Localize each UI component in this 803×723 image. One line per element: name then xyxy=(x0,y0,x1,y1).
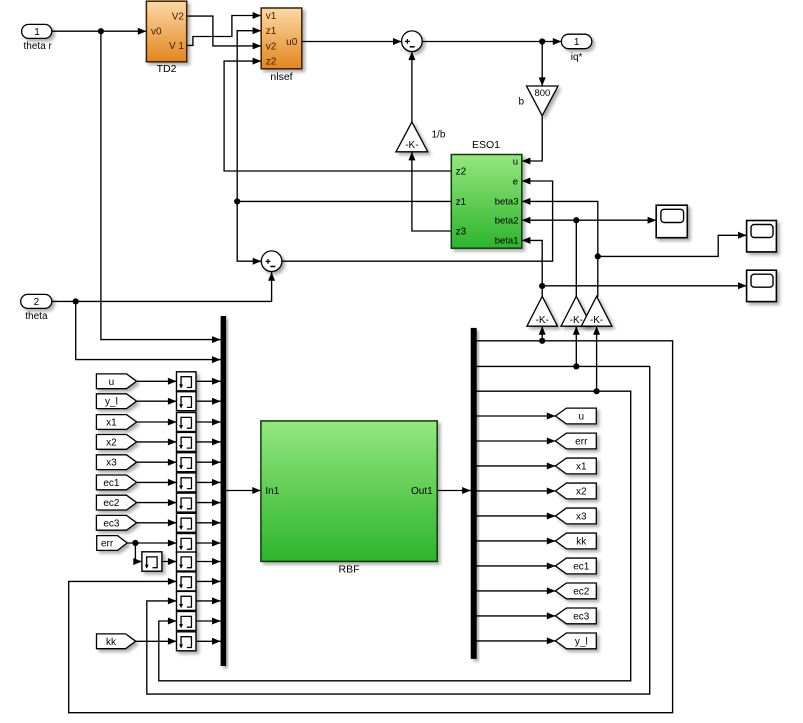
svg-text:v2: v2 xyxy=(266,41,277,52)
svg-text:u: u xyxy=(579,412,585,423)
wire theta r branch to Mux input 1 xyxy=(101,31,221,339)
wire Demux to Goto tag x3 xyxy=(477,515,556,517)
svg-text:x1: x1 xyxy=(106,418,117,429)
block ESO1 xyxy=(451,155,522,249)
goto tag x1 xyxy=(555,458,596,474)
svg-text:x1: x1 xyxy=(576,461,587,472)
goto tag ec3 xyxy=(555,608,596,624)
svg-text:err: err xyxy=(101,539,114,550)
junction theta branch xyxy=(73,298,79,304)
svg-text:v1: v1 xyxy=(266,11,277,22)
svg-text:e: e xyxy=(513,176,518,187)
svg-text:Out1: Out1 xyxy=(411,486,433,497)
svg-text:kk: kk xyxy=(576,536,587,547)
junction Demux out3 to gain -K-3 xyxy=(594,388,600,394)
from tag kk xyxy=(97,634,136,649)
svg-text:800: 800 xyxy=(534,88,550,99)
scope Scope1 xyxy=(656,205,687,238)
wire From tag err to delay xyxy=(127,542,176,544)
svg-text:z1: z1 xyxy=(456,197,467,208)
from tag ec1 xyxy=(96,475,136,490)
svg-text:u: u xyxy=(513,156,518,167)
svg-text:kk: kk xyxy=(106,637,117,648)
gain -K-1 xyxy=(527,296,558,326)
wire delay 10 to Mux xyxy=(196,561,221,563)
from tag err xyxy=(97,536,128,551)
svg-text:beta2: beta2 xyxy=(495,216,519,227)
svg-text:2: 2 xyxy=(34,297,40,308)
wire Demux to Goto tag u xyxy=(477,415,556,417)
wire nlsef u0 to Sum1 xyxy=(302,41,402,43)
goto tag kk xyxy=(555,533,596,549)
junction theta r branch xyxy=(98,28,104,34)
wire ESO1 z2 to nlsef z2 xyxy=(224,61,451,171)
wire Sum1 branch down to gain b xyxy=(541,42,543,87)
wire From tag kk to delay xyxy=(136,640,177,642)
junction beta2 branch xyxy=(573,217,579,223)
goto tag ec2 xyxy=(555,583,596,599)
unit delay 6 xyxy=(177,473,197,492)
svg-text:z2: z2 xyxy=(266,57,277,68)
wire delay 1 to Mux xyxy=(196,380,221,382)
wire Demux to Goto tag y_l xyxy=(477,640,556,642)
unit delay err2 xyxy=(142,552,162,571)
goto tag y_l xyxy=(555,633,596,649)
unit delay 14 xyxy=(177,632,197,651)
gain -K-2 xyxy=(561,296,592,326)
wire RBF Out1 to Demux xyxy=(437,490,471,492)
wire Sum2 output to ESO1 e input xyxy=(282,181,552,261)
wire From tag x2 to delay xyxy=(137,441,177,443)
from tag x2 xyxy=(96,435,136,450)
svg-text:ec3: ec3 xyxy=(103,518,120,529)
wire theta branch to Mux input 2 xyxy=(76,301,221,359)
scope Scope3 xyxy=(747,270,777,301)
svg-text:nlsef: nlsef xyxy=(270,71,292,83)
svg-text:x3: x3 xyxy=(106,458,117,469)
svg-text:theta: theta xyxy=(25,311,48,322)
wire beta3 branch to Scope2 xyxy=(598,235,747,256)
from tag ec2 xyxy=(96,495,136,510)
from tag x1 xyxy=(96,415,136,430)
svg-text:1/b: 1/b xyxy=(432,130,446,141)
wire From tag x3 to delay xyxy=(137,461,177,463)
wire branch up to gain -K-1 input xyxy=(541,326,543,341)
wire delay 8 to Mux xyxy=(196,522,221,524)
svg-text:err: err xyxy=(575,436,588,447)
svg-text:x2: x2 xyxy=(106,437,117,448)
wire Demux to Goto tag ec1 xyxy=(477,565,556,567)
gain -K-3 xyxy=(581,296,612,326)
svg-text:theta r: theta r xyxy=(24,41,53,52)
wire Demux to Goto tag x1 xyxy=(477,465,556,467)
svg-text:1: 1 xyxy=(34,27,40,38)
from tag y_l xyxy=(96,394,136,409)
svg-text:In1: In1 xyxy=(265,486,279,497)
wire delay 11 to Mux xyxy=(196,580,221,582)
wire branch up to gain -K-2 input xyxy=(575,326,577,366)
wire delay 13 to Mux xyxy=(196,620,221,622)
unit delay 5 xyxy=(177,453,197,472)
wire From tag ec3 to delay xyxy=(137,522,177,524)
svg-text:beta1: beta1 xyxy=(495,236,519,247)
block RBF xyxy=(261,421,437,562)
wire offset delay to delay row10 xyxy=(162,561,177,563)
wire gain -K-3 output to ESO1 beta3 input xyxy=(522,201,598,296)
unit delay 3 xyxy=(177,413,197,432)
svg-text:ec2: ec2 xyxy=(103,498,120,509)
junction Demux out1 to gain -K-1 xyxy=(539,338,545,344)
from tag ec3 xyxy=(96,515,136,530)
junction Demux out2 to gain -K-2 xyxy=(573,363,579,369)
outport 1 iq* xyxy=(561,34,591,49)
wire err branch to offset delay xyxy=(135,543,142,562)
svg-text:V2: V2 xyxy=(172,12,185,23)
svg-text:-K-: -K- xyxy=(570,315,583,326)
wire delay 2 to Mux xyxy=(196,400,221,402)
svg-text:ESO1: ESO1 xyxy=(472,139,500,151)
svg-text:u0: u0 xyxy=(286,37,298,48)
wire From tag u to delay xyxy=(137,380,177,382)
svg-text:z1: z1 xyxy=(266,26,277,37)
goto tag x3 xyxy=(555,508,596,524)
sum Sum1 xyxy=(402,31,423,52)
svg-text:V 1: V 1 xyxy=(169,41,184,52)
junction beta3 branch to Scope2 xyxy=(595,253,601,259)
unit delay 8 xyxy=(177,513,197,532)
svg-text:-K-: -K- xyxy=(536,315,549,326)
wire branch up to gain -K-3 input xyxy=(596,326,598,391)
svg-text:u: u xyxy=(109,377,115,388)
svg-text:y_l: y_l xyxy=(575,636,588,647)
wire From tag ec1 to delay xyxy=(137,481,177,483)
svg-text:ec2: ec2 xyxy=(573,586,590,597)
wire inport theta to Sum2 minus input xyxy=(52,272,272,301)
wire TD2 V1 to nlsef v1 xyxy=(187,16,262,46)
wire Demux out1 to gain -K-1 and feedback loop C xyxy=(69,341,673,713)
wire Demux to Goto tag x2 xyxy=(477,490,556,492)
svg-text:iq*: iq* xyxy=(571,52,583,63)
wire delay 3 to Mux xyxy=(196,421,221,423)
unit delay 1 xyxy=(177,372,197,391)
gain b 800 xyxy=(527,86,559,116)
scope Scope2 xyxy=(747,221,777,252)
svg-text:TD2: TD2 xyxy=(157,63,177,75)
goto tag ec1 xyxy=(555,558,596,574)
block TD2 xyxy=(146,1,186,62)
inport 2 theta xyxy=(21,294,52,308)
svg-text:-K-: -K- xyxy=(405,140,418,151)
goto tag err xyxy=(555,433,596,449)
svg-text:y_l: y_l xyxy=(105,397,118,408)
wire ESO1 z1 to nlsef z1 and Sum2 xyxy=(237,31,451,202)
goto tag u xyxy=(555,408,596,424)
unit delay 2 xyxy=(177,392,197,411)
svg-text:-K-: -K- xyxy=(590,315,603,326)
wire Demux to Goto tag ec3 xyxy=(477,615,556,617)
wire theta r to TD2 v0 xyxy=(52,30,147,32)
wire delay 9 to Mux xyxy=(196,542,221,544)
wire delay 14 to Mux xyxy=(196,640,221,642)
from tag u xyxy=(96,374,136,389)
wire gain -K-1 output to ESO1 beta1 input xyxy=(522,240,542,296)
svg-text:ec1: ec1 xyxy=(573,561,590,572)
junction Sum1 output branch xyxy=(539,38,545,44)
wire Demux to Goto tag err xyxy=(477,440,556,442)
wire Demux to Goto tag ec2 xyxy=(477,590,556,592)
wire Demux out3 to gain -K-3 and feedback loop A xyxy=(159,391,631,681)
svg-text:x2: x2 xyxy=(576,486,587,497)
svg-text:ec1: ec1 xyxy=(103,478,120,489)
wire ESO1 z3 to gain 1/b input xyxy=(412,152,451,231)
unit delay 4 xyxy=(177,432,197,451)
junction err branch to second delay xyxy=(132,540,138,546)
unit delay 11 xyxy=(177,572,197,591)
junction beta1 branch to Scope3 xyxy=(539,283,545,289)
inport 1 theta r xyxy=(22,24,52,38)
wire delay 12 to Mux xyxy=(196,600,221,602)
from tag x3 xyxy=(96,455,136,470)
demux Demux xyxy=(471,328,477,659)
wire beta2 branch to Scope1 xyxy=(576,219,656,221)
wire Demux to Goto tag kk xyxy=(477,540,556,542)
unit delay 10 xyxy=(177,552,197,571)
wire Demux out2 to gain -K-2 and feedback loop B xyxy=(147,366,650,694)
wire gain -K-2 output to ESO1 beta2 input and Scope1 xyxy=(522,220,577,296)
svg-text:ec3: ec3 xyxy=(573,611,590,622)
block nlsef xyxy=(261,8,302,69)
wire gain 1/b output to Sum1 minus input xyxy=(411,52,413,122)
svg-text:v0: v0 xyxy=(151,27,162,38)
unit delay 12 xyxy=(177,591,197,610)
svg-text:beta3: beta3 xyxy=(495,197,519,208)
wire delay 7 to Mux xyxy=(196,502,221,504)
wire From tag y_l to delay xyxy=(137,400,177,402)
unit delay 7 xyxy=(177,493,197,512)
wire delay 5 to Mux xyxy=(196,461,221,463)
svg-text:x3: x3 xyxy=(576,511,587,522)
wire delay 6 to Mux xyxy=(196,481,221,483)
svg-text:z2: z2 xyxy=(456,167,467,178)
wire z1 branch to Sum2 plus input xyxy=(237,201,261,261)
gain 1/b -K- xyxy=(396,122,428,152)
wire delay 4 to Mux xyxy=(196,441,221,443)
wire gain b output to ESO1 u input xyxy=(522,116,542,161)
svg-text:1: 1 xyxy=(574,37,580,48)
wire From tag ec2 to delay xyxy=(137,502,177,504)
svg-text:z3: z3 xyxy=(456,227,467,238)
wire Mux output to RBF In1 xyxy=(226,490,261,492)
goto tag x2 xyxy=(555,483,596,499)
mux Mux xyxy=(221,316,227,666)
wire From tag x1 to delay xyxy=(137,421,177,423)
wire TD2 V2 to nlsef v2 xyxy=(187,16,262,46)
sum Sum2 xyxy=(261,251,282,272)
junction z1 branch xyxy=(234,198,240,204)
unit delay 13 xyxy=(177,612,197,631)
wire beta1 branch to Scope3 xyxy=(542,285,746,287)
svg-text:b: b xyxy=(518,97,524,108)
svg-text:RBF: RBF xyxy=(339,564,360,576)
wire Sum1 output to outport iq* xyxy=(422,41,561,43)
unit delay 9 xyxy=(177,534,197,553)
